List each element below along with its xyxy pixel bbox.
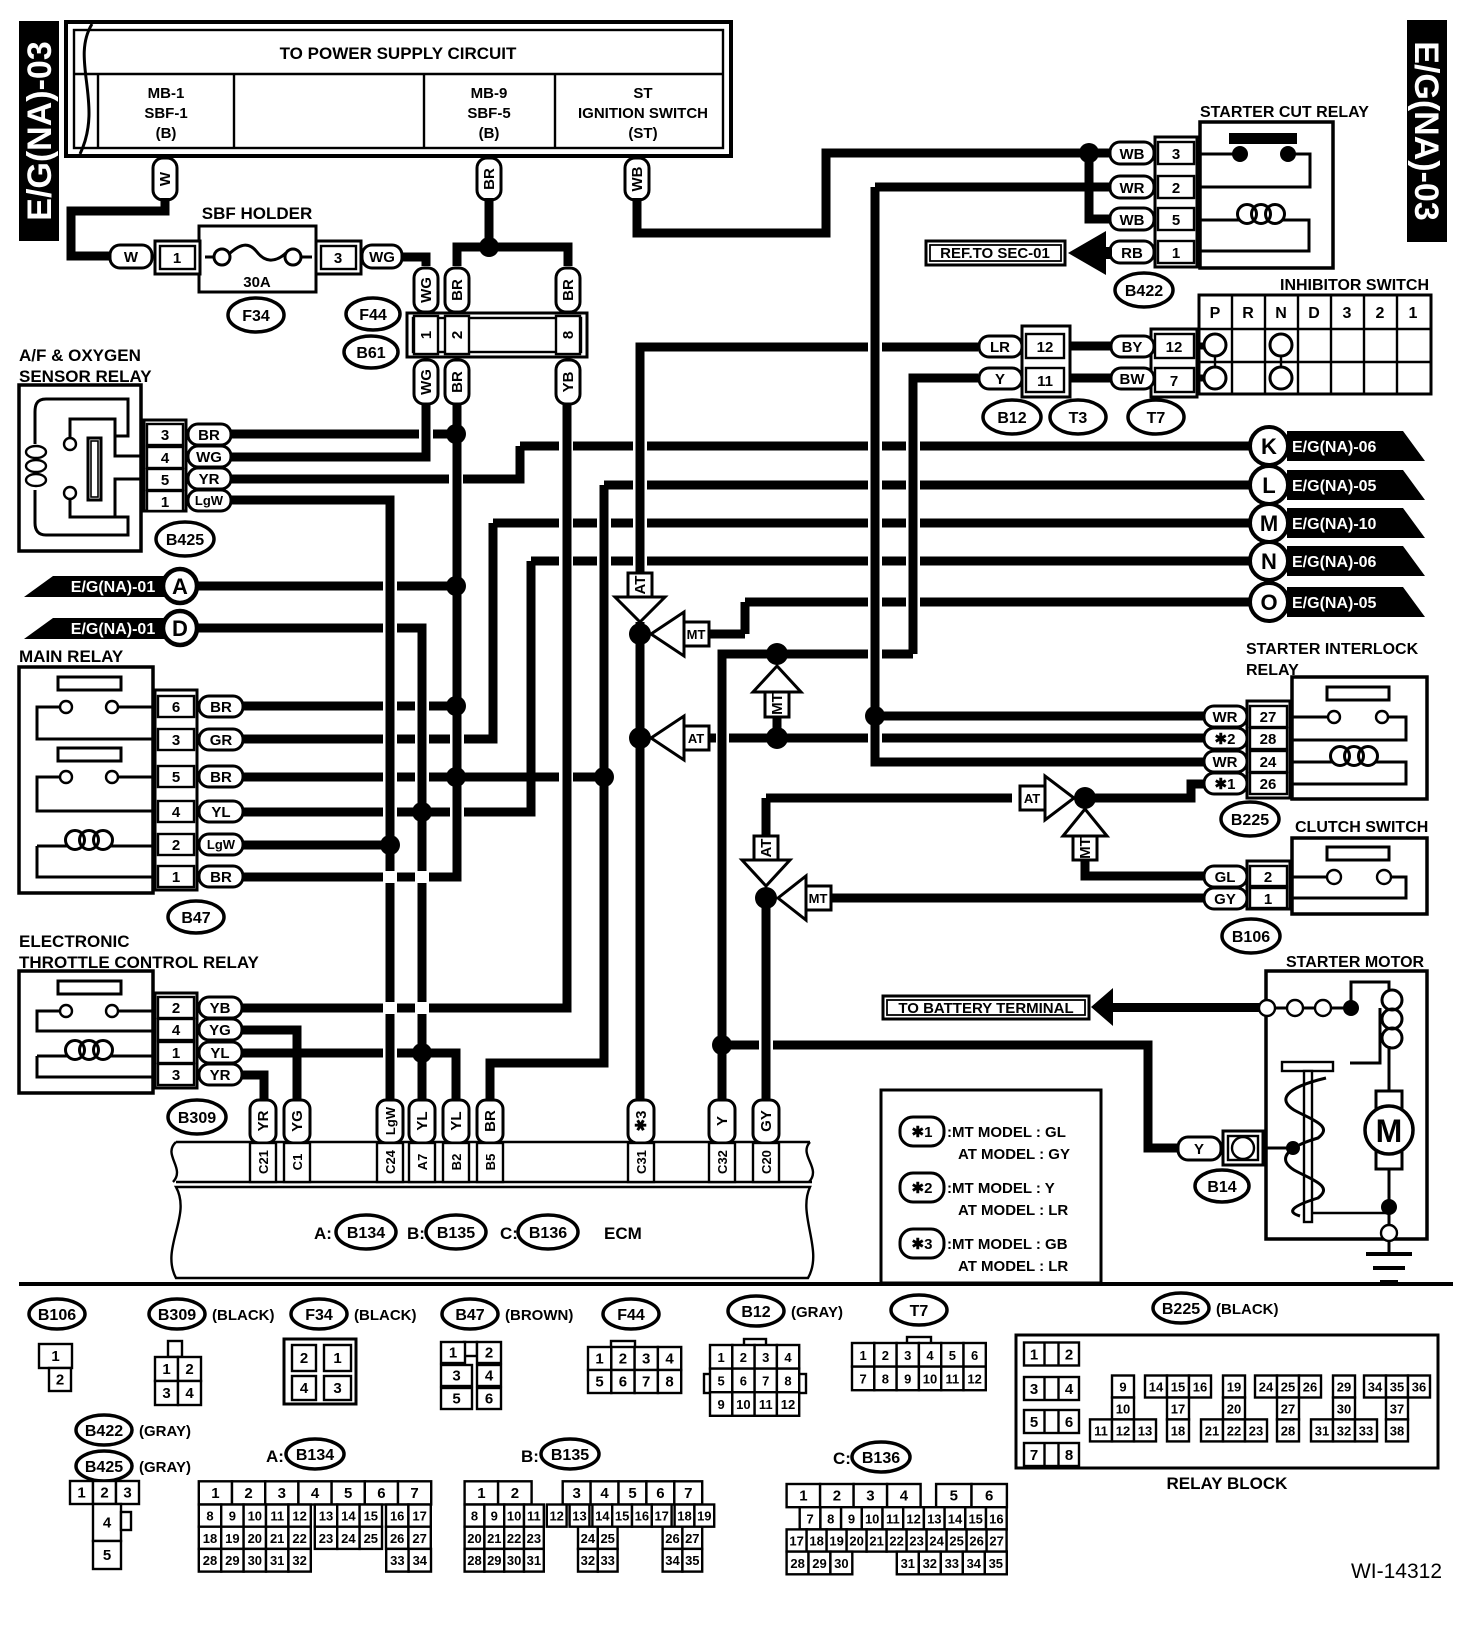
label B106	[29, 1299, 85, 1329]
starter interlock relay box	[1292, 677, 1427, 799]
svg-text:B47: B47	[181, 910, 210, 927]
svg-text:THROTTLE CONTROL RELAY: THROTTLE CONTROL RELAY	[19, 953, 260, 972]
svg-text:A:: A:	[314, 1224, 332, 1243]
section divider	[19, 1282, 1453, 1286]
svg-text:(ST): (ST)	[628, 125, 657, 142]
svg-text:BW: BW	[1120, 371, 1146, 388]
wire WG capsule to B61 pin1	[402, 257, 426, 266]
svg-text:6: 6	[656, 1485, 664, 1502]
svg-text:24: 24	[581, 1531, 596, 1546]
svg-text:E/G(NA)-03: E/G(NA)-03	[1407, 41, 1445, 220]
page banner right E/G(NA)-03	[1407, 20, 1447, 242]
clutch switch box	[1292, 838, 1427, 914]
label T7	[891, 1295, 947, 1325]
pill BR above B61 pin8	[556, 268, 580, 312]
ellipse B309	[168, 1100, 226, 1134]
wire O row	[709, 602, 1250, 634]
svg-text:26: 26	[665, 1531, 679, 1546]
svg-text:8: 8	[827, 1511, 834, 1526]
ellipse B425	[156, 522, 214, 556]
wire YR throttle pin3 to C21	[242, 1075, 264, 1103]
svg-text:35: 35	[989, 1556, 1003, 1571]
svg-text:1: 1	[51, 1348, 59, 1365]
svg-text:5: 5	[344, 1485, 352, 1502]
svg-text:WG: WG	[369, 249, 395, 266]
svg-text:34: 34	[967, 1556, 982, 1571]
solenoid plunger	[1282, 1062, 1333, 1071]
flag K E/G(NA)-06	[1287, 431, 1425, 461]
svg-text:MB-9: MB-9	[471, 85, 508, 102]
svg-text:5: 5	[628, 1485, 636, 1502]
pill YL throttle pin1	[199, 1042, 242, 1063]
svg-text:YL: YL	[211, 804, 230, 821]
svg-text:16: 16	[635, 1509, 649, 1524]
starter motor M	[1376, 1091, 1402, 1169]
svg-text:W: W	[124, 249, 139, 266]
svg-text:6: 6	[172, 699, 180, 716]
relay coil	[1200, 219, 1239, 222]
wire Y from B12-11	[722, 378, 978, 1103]
svg-text:4: 4	[300, 1380, 309, 1397]
svg-text:3: 3	[278, 1485, 286, 1502]
svg-text:1: 1	[173, 250, 181, 267]
svg-text:BR: BR	[560, 279, 577, 301]
svg-text:6: 6	[740, 1373, 747, 1388]
svg-text:B12: B12	[997, 410, 1026, 427]
svg-text:INHIBITOR SWITCH: INHIBITOR SWITCH	[1280, 277, 1429, 294]
svg-text:11: 11	[886, 1511, 900, 1526]
svg-text:T7: T7	[910, 1303, 929, 1320]
svg-text:27: 27	[685, 1531, 699, 1546]
svg-text:LgW: LgW	[383, 1106, 398, 1135]
svg-text:25: 25	[949, 1534, 963, 1549]
svg-text:B425: B425	[166, 532, 204, 549]
ECM pin C21 YR	[250, 1100, 276, 1143]
svg-text:R: R	[1242, 305, 1254, 322]
svg-text:16: 16	[1193, 1380, 1207, 1395]
svg-text:12: 12	[781, 1397, 795, 1412]
svg-text:30: 30	[834, 1556, 848, 1571]
svg-text:MB-1: MB-1	[148, 85, 185, 102]
wire M row	[493, 519, 1250, 528]
svg-text:23: 23	[909, 1534, 923, 1549]
label F34	[291, 1299, 347, 1329]
main relay pin column	[155, 690, 197, 890]
arrow to RB	[1068, 231, 1106, 275]
junction BR row / BR vertical	[446, 424, 466, 444]
power supply circuit box	[66, 22, 731, 156]
svg-text:26: 26	[969, 1534, 983, 1549]
svg-text:C32: C32	[715, 1150, 730, 1174]
connector B106	[39, 1344, 72, 1368]
svg-text:25: 25	[600, 1531, 614, 1546]
svg-text:✱1: ✱1	[912, 1124, 933, 1141]
svg-text:15: 15	[364, 1509, 378, 1524]
REF.TO SEC-01 box	[926, 241, 1065, 265]
AT arrow 1 down on LR wire	[628, 573, 652, 597]
ECM pin B2 YL	[443, 1100, 469, 1143]
svg-text:MAIN RELAY: MAIN RELAY	[19, 647, 124, 666]
wire WG A/F pin4 to B61	[231, 404, 426, 457]
svg-text:C:: C:	[833, 1449, 851, 1468]
svg-text:4: 4	[172, 1022, 181, 1039]
svg-text:18: 18	[203, 1531, 217, 1546]
junction WR vertical / pin 27 row	[865, 706, 885, 726]
svg-text:16: 16	[989, 1511, 1003, 1526]
svg-text:MT: MT	[809, 891, 828, 906]
label B309	[149, 1299, 205, 1329]
svg-text:B225: B225	[1231, 812, 1269, 829]
svg-text:WR: WR	[1213, 709, 1238, 726]
svg-text:3: 3	[162, 1385, 170, 1402]
svg-text:SBF HOLDER: SBF HOLDER	[202, 204, 313, 223]
node MT tail on row 738	[766, 727, 788, 749]
pill WR pin2	[1110, 176, 1154, 198]
svg-text:18: 18	[1171, 1423, 1185, 1438]
svg-text:22: 22	[1227, 1423, 1241, 1438]
svg-text:B225: B225	[1162, 1301, 1200, 1318]
svg-text:1: 1	[333, 1350, 341, 1367]
svg-text:4: 4	[600, 1485, 609, 1502]
main relay coil	[37, 845, 67, 848]
svg-text:25: 25	[364, 1531, 378, 1546]
svg-text:YR: YR	[210, 1067, 231, 1084]
svg-text:6: 6	[377, 1485, 385, 1502]
pill BY	[1111, 336, 1154, 357]
svg-text:BR: BR	[210, 769, 232, 786]
svg-text:F44: F44	[617, 1307, 645, 1324]
svg-text:12: 12	[1116, 1423, 1130, 1438]
pill BR main pin1	[199, 866, 243, 887]
throttle relay contact	[58, 981, 121, 994]
svg-text:✱3: ✱3	[633, 1111, 650, 1132]
svg-text:A/F & OXYGEN: A/F & OXYGEN	[19, 346, 141, 365]
svg-text:GR: GR	[210, 732, 233, 749]
svg-text:LgW: LgW	[207, 837, 236, 852]
svg-text:38: 38	[1390, 1423, 1404, 1438]
svg-text:10: 10	[248, 1509, 262, 1524]
wire D flag row to YL vertical	[197, 628, 422, 1103]
svg-text:B134: B134	[347, 1225, 385, 1242]
svg-text:1: 1	[859, 1348, 866, 1363]
svg-text:13: 13	[1138, 1423, 1152, 1438]
svg-text:E/G(NA)-01: E/G(NA)-01	[71, 621, 156, 638]
ECM pin C31 ✱3	[628, 1100, 654, 1143]
svg-text:WB: WB	[629, 166, 646, 191]
svg-text:32: 32	[292, 1553, 306, 1568]
wire WB branch to pin 5	[1089, 153, 1110, 219]
svg-text:23: 23	[1249, 1423, 1263, 1438]
svg-text:B:: B:	[407, 1224, 425, 1243]
pill BR above B61 pin2	[445, 268, 469, 312]
svg-text:IGNITION SWITCH: IGNITION SWITCH	[578, 105, 708, 122]
svg-text:AT: AT	[632, 576, 649, 595]
svg-text:✱1: ✱1	[1215, 776, 1236, 793]
svg-text:C:: C:	[500, 1224, 518, 1243]
wire from solenoid link	[1350, 1008, 1380, 1063]
svg-text:2: 2	[449, 331, 466, 339]
svg-text:ECM: ECM	[604, 1224, 642, 1243]
svg-text:B135: B135	[551, 1447, 589, 1464]
svg-text:B61: B61	[356, 345, 385, 362]
svg-text:11: 11	[1094, 1423, 1108, 1438]
svg-text:✱3: ✱3	[912, 1236, 933, 1253]
pill BR under MB-9	[477, 158, 501, 200]
svg-text:21: 21	[487, 1531, 501, 1546]
svg-text:2: 2	[511, 1485, 519, 1502]
svg-text:A: A	[172, 574, 188, 599]
svg-text:F34: F34	[305, 1307, 333, 1324]
break on row738 at x722	[709, 734, 1204, 743]
svg-text:SENSOR RELAY: SENSOR RELAY	[19, 367, 152, 386]
svg-text:28: 28	[467, 1553, 481, 1568]
svg-text:C24: C24	[383, 1149, 398, 1174]
pill WB pin3	[1110, 142, 1154, 164]
svg-text:WG: WG	[196, 449, 222, 466]
B61 cell 8	[556, 316, 580, 354]
svg-text:3: 3	[904, 1348, 911, 1363]
wire to B61 pin2 BR	[457, 247, 489, 266]
svg-text:19: 19	[829, 1534, 843, 1549]
svg-text:C31: C31	[634, 1150, 649, 1174]
svg-text:E/G(NA)-10: E/G(NA)-10	[1292, 516, 1377, 533]
pill LgW main pin2	[199, 834, 243, 855]
svg-text:(B): (B)	[156, 125, 177, 142]
svg-text:YR: YR	[199, 471, 220, 488]
svg-text:YB: YB	[210, 1000, 231, 1017]
svg-text:YG: YG	[289, 1110, 306, 1132]
svg-text:12: 12	[1166, 339, 1183, 356]
capsule W before fuse	[110, 245, 152, 268]
svg-text:4: 4	[485, 1368, 494, 1385]
svg-text:REF.TO SEC-01: REF.TO SEC-01	[940, 245, 1050, 262]
svg-text:3: 3	[762, 1350, 769, 1365]
svg-text:4: 4	[172, 804, 181, 821]
ECM pin C24 LgW	[377, 1100, 403, 1143]
svg-text:24: 24	[1259, 1380, 1274, 1395]
svg-text:8: 8	[665, 1374, 673, 1391]
svg-text:25: 25	[1281, 1380, 1295, 1395]
ECM pin A7 YL	[409, 1100, 435, 1143]
svg-text:B135: B135	[437, 1225, 475, 1242]
svg-text:3: 3	[1343, 305, 1352, 322]
wire BR from power box to junction	[485, 198, 494, 247]
ECM pin C1 YG	[284, 1100, 310, 1143]
svg-text:B14: B14	[1207, 1179, 1236, 1196]
svg-text:17: 17	[412, 1509, 426, 1524]
svg-text:N: N	[1275, 305, 1287, 322]
starter motor box	[1266, 971, 1427, 1239]
svg-text:B47: B47	[455, 1307, 484, 1324]
inhibitor P contacts	[1204, 334, 1226, 356]
svg-text:3: 3	[642, 1351, 650, 1368]
svg-text:35: 35	[1390, 1380, 1404, 1395]
svg-text:3: 3	[452, 1368, 460, 1385]
svg-text:B12: B12	[741, 1304, 770, 1321]
svg-text:D: D	[172, 616, 188, 641]
svg-text:2: 2	[56, 1372, 64, 1389]
pill RB pin1	[1110, 241, 1154, 263]
svg-text:11: 11	[1037, 373, 1053, 390]
svg-text:T3: T3	[1069, 410, 1088, 427]
svg-text:AT: AT	[1024, 791, 1040, 806]
relay contact	[1229, 133, 1297, 144]
svg-text:7: 7	[684, 1485, 692, 1502]
flag E/G(NA)-01 A	[24, 576, 166, 597]
ground	[1388, 1241, 1391, 1252]
junction BR split	[479, 237, 499, 257]
svg-text:7: 7	[1170, 373, 1178, 390]
wire main relay pin5 BR row	[243, 773, 604, 782]
svg-text:2: 2	[1376, 305, 1385, 322]
ECM pin B5 BR	[477, 1100, 503, 1143]
svg-text:2: 2	[172, 837, 180, 854]
svg-text:7: 7	[806, 1511, 813, 1526]
wavy continuation cut on left	[80, 24, 92, 154]
svg-text:P: P	[1210, 305, 1221, 322]
MT arrow 1 left to O flag	[651, 612, 684, 656]
svg-text:12: 12	[906, 1511, 920, 1526]
pill BR main pin5	[199, 766, 243, 787]
connector T7	[907, 1337, 931, 1345]
pill GL	[1204, 866, 1247, 887]
flag N E/G(NA)-06	[1287, 546, 1425, 576]
svg-text:21: 21	[270, 1531, 284, 1546]
svg-text:27: 27	[1260, 709, 1277, 726]
svg-text:21: 21	[869, 1534, 883, 1549]
wire LR from B12-12 down to C31	[640, 347, 978, 1103]
pill BW	[1111, 368, 1154, 389]
connector B425	[70, 1481, 93, 1504]
AT arrow 5 right to *1	[1020, 786, 1045, 810]
svg-text::MT MODEL : GB: :MT MODEL : GB	[947, 1236, 1068, 1253]
wire MT4 tail GY row to clutch	[830, 894, 1204, 903]
svg-text:M: M	[1376, 1113, 1403, 1149]
svg-text:5: 5	[452, 1391, 460, 1408]
svg-text:(GRAY): (GRAY)	[791, 1304, 843, 1321]
svg-text:6: 6	[985, 1488, 993, 1505]
svg-text:11: 11	[946, 1371, 960, 1386]
svg-text:BR: BR	[482, 1110, 499, 1132]
svg-text:2: 2	[740, 1350, 747, 1365]
svg-text:RB: RB	[1121, 245, 1143, 262]
svg-text:YB: YB	[560, 371, 577, 392]
svg-text:C20: C20	[759, 1150, 774, 1174]
ellipse T7	[1128, 400, 1184, 434]
junction WB	[1079, 143, 1099, 163]
pill YL main pin4	[199, 801, 243, 822]
svg-text:5: 5	[103, 1547, 111, 1564]
wire L flag vertical to B5	[490, 485, 604, 1103]
wire YB vertical B61 pin8 to throttle pin2	[242, 404, 567, 1008]
flag O E/G(NA)-05	[1287, 587, 1425, 617]
svg-text:Y: Y	[1194, 1141, 1204, 1158]
svg-text:19: 19	[1227, 1380, 1241, 1395]
throttle pin column	[155, 993, 197, 1088]
svg-text:8: 8	[1065, 1447, 1073, 1464]
svg-text:23: 23	[527, 1531, 541, 1546]
relay block B225	[1016, 1335, 1438, 1468]
svg-text:SBF-5: SBF-5	[467, 105, 510, 122]
svg-text:32: 32	[923, 1556, 937, 1571]
page banner left E/G(NA)-03	[19, 21, 59, 241]
pill W under MB-1	[153, 158, 177, 200]
inhibitor switch grid	[1199, 295, 1431, 394]
svg-text:6: 6	[971, 1348, 978, 1363]
svg-text:28: 28	[790, 1556, 804, 1571]
label B225	[1153, 1293, 1209, 1323]
main relay contact 1	[58, 677, 121, 690]
svg-text:20: 20	[248, 1531, 262, 1546]
svg-text:6: 6	[1065, 1414, 1073, 1431]
svg-text:4: 4	[311, 1485, 320, 1502]
svg-text:28: 28	[1260, 731, 1277, 748]
throttle relay box	[19, 971, 153, 1093]
wire Y to starter motor	[722, 1045, 1178, 1148]
A/F relay coil loops	[26, 446, 46, 458]
pin column starter cut relay	[1155, 137, 1197, 267]
svg-text:YG: YG	[209, 1022, 231, 1039]
MT arrow 4 left on GY row	[778, 876, 806, 920]
MT arrow 5 up from GL	[1063, 809, 1107, 836]
B61 cell 1	[414, 316, 438, 354]
ellipse B61	[344, 336, 398, 368]
junction main relay 2 / LgW vertical	[380, 835, 400, 855]
svg-text:5: 5	[595, 1374, 603, 1391]
svg-text:3: 3	[334, 250, 342, 267]
pill BR A/F pin3	[188, 424, 231, 445]
svg-text:(BLACK): (BLACK)	[1216, 1301, 1278, 1318]
starter interlock pin column	[1247, 701, 1290, 798]
svg-text:30: 30	[1337, 1402, 1351, 1417]
svg-text:33: 33	[390, 1553, 404, 1568]
junction main relay 5 / L vertical	[594, 767, 614, 787]
junction main relay 4 / YL vertical	[412, 802, 432, 822]
svg-text:29: 29	[812, 1556, 826, 1571]
svg-text:22: 22	[889, 1534, 903, 1549]
svg-text:23: 23	[319, 1531, 333, 1546]
starter field coil	[1351, 982, 1389, 1008]
svg-text:3: 3	[123, 1485, 131, 1502]
svg-text:4: 4	[103, 1515, 112, 1532]
node Y net split	[766, 643, 788, 665]
svg-text:B134: B134	[296, 1447, 334, 1464]
svg-text:B309: B309	[158, 1307, 196, 1324]
svg-text:E/G(NA)-06: E/G(NA)-06	[1292, 439, 1377, 456]
svg-text:1: 1	[1409, 305, 1418, 322]
AT arrow 4 down on GY chain	[754, 836, 778, 860]
ECM body	[171, 1187, 813, 1278]
svg-text:26: 26	[1260, 776, 1277, 793]
wire BR vertical B61 pin2	[243, 404, 457, 877]
ECM connector strip	[176, 1141, 810, 1143]
A/F relay box	[19, 385, 141, 551]
svg-text:21: 21	[1205, 1423, 1219, 1438]
svg-text:29: 29	[225, 1553, 239, 1568]
svg-text:1: 1	[172, 1045, 180, 1062]
pill Y	[979, 368, 1022, 389]
junction main relay 5 / BR vertical	[446, 767, 466, 787]
connector B61 body	[407, 313, 587, 357]
svg-text:29: 29	[487, 1553, 501, 1568]
svg-text:4: 4	[1065, 1381, 1074, 1398]
svg-text:8: 8	[471, 1509, 478, 1524]
svg-text:7: 7	[1030, 1447, 1038, 1464]
note box *1 *2 *3	[881, 1090, 1101, 1283]
svg-text:WG: WG	[418, 277, 435, 303]
svg-text:27: 27	[412, 1531, 426, 1546]
svg-text:2: 2	[1065, 1347, 1073, 1364]
